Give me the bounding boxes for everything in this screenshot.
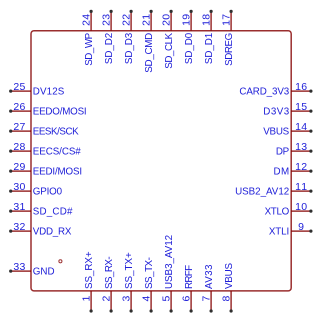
- svg-text:XTLO: XTLO: [265, 206, 290, 217]
- pin end dot: [110, 10, 113, 13]
- svg-text:VBUS: VBUS: [263, 126, 289, 137]
- svg-text:SD_D3: SD_D3: [124, 32, 135, 64]
- wire: [90, 291, 92, 311]
- pin 24 SD_WP (top): [81, 10, 95, 66]
- svg-text:17: 17: [221, 14, 233, 26]
- pin 21 SD_CMD (top): [141, 10, 155, 73]
- pin end dot: [9, 90, 12, 93]
- svg-text:SDREG: SDREG: [224, 33, 235, 66]
- pin 6 RRFF (bottom): [181, 265, 195, 313]
- wire: [11, 110, 31, 112]
- wire: [130, 291, 132, 311]
- pin 17 SDREG (top): [221, 10, 235, 66]
- svg-text:26: 26: [13, 101, 25, 113]
- pin 1 SS_RX+ (bottom): [81, 251, 95, 312]
- pin 14 VBUS (right): [263, 121, 312, 138]
- svg-text:XTLI: XTLI: [269, 226, 289, 237]
- svg-text:EEDI/MOSI: EEDI/MOSI: [33, 166, 82, 177]
- pin 8 VBUS (bottom): [221, 263, 235, 313]
- pin end dot: [150, 309, 153, 312]
- wire: [11, 210, 31, 212]
- svg-text:GPIO0: GPIO0: [33, 186, 63, 197]
- pin 22 SD_D3 (top): [121, 10, 135, 64]
- pin 31 SD_CD# (left): [9, 201, 73, 218]
- svg-text:4: 4: [141, 296, 153, 302]
- svg-text:28: 28: [13, 141, 25, 153]
- svg-text:1: 1: [81, 296, 93, 302]
- pin end dot: [230, 309, 233, 312]
- svg-text:USB2_AV12: USB2_AV12: [235, 186, 289, 197]
- svg-text:SS_RX+: SS_RX+: [84, 251, 95, 289]
- pin end dot: [9, 230, 12, 233]
- pin end dot: [150, 10, 153, 13]
- svg-text:SD_CMD: SD_CMD: [144, 33, 155, 73]
- pin end dot: [90, 309, 93, 312]
- svg-text:23: 23: [101, 14, 113, 26]
- pin end dot: [309, 110, 312, 113]
- pin 7 AV33 (bottom): [201, 264, 215, 313]
- pin 4 SS_TX- (bottom): [141, 257, 155, 313]
- svg-text:12: 12: [295, 161, 307, 173]
- svg-text:EESK/SCK: EESK/SCK: [33, 126, 79, 137]
- pin end dot: [9, 150, 12, 153]
- pin 30 GPIO0 (left): [9, 181, 62, 198]
- svg-text:SS_RX-: SS_RX-: [104, 256, 115, 289]
- svg-text:5: 5: [161, 296, 173, 302]
- pin end dot: [9, 270, 12, 273]
- svg-text:EECS/CS#: EECS/CS#: [33, 146, 82, 157]
- pin 18 SD_D1 (top): [201, 10, 215, 64]
- wire: [291, 170, 311, 172]
- pin 27 EESK/SCK (left): [9, 121, 79, 138]
- pin 16 CARD_3V3 (right): [239, 81, 312, 98]
- wire: [11, 150, 31, 152]
- svg-text:21: 21: [141, 14, 153, 26]
- wire: [110, 291, 112, 311]
- wire: [170, 11, 172, 30]
- svg-text:3: 3: [121, 296, 133, 302]
- pin 19 SD_D0 (top): [181, 10, 195, 64]
- wire: [291, 190, 311, 192]
- pin end dot: [190, 10, 193, 13]
- pin end dot: [309, 230, 312, 233]
- pin end dot: [90, 10, 93, 13]
- svg-text:CARD_3V3: CARD_3V3: [239, 86, 289, 97]
- logic indicator circle near GND: [59, 260, 62, 263]
- wire: [11, 230, 31, 232]
- pin end dot: [190, 309, 193, 312]
- pin 20 SD_CLK (top): [161, 10, 175, 69]
- wire: [291, 150, 311, 152]
- svg-text:25: 25: [13, 81, 25, 93]
- wire: [291, 110, 311, 112]
- svg-text:VDD_RX: VDD_RX: [33, 226, 72, 237]
- pin end dot: [309, 190, 312, 193]
- wire: [130, 11, 132, 30]
- pin end dot: [309, 90, 312, 93]
- wire: [230, 291, 232, 311]
- wire: [11, 130, 31, 132]
- pin end dot: [230, 10, 233, 13]
- wire: [190, 291, 192, 311]
- svg-text:DM: DM: [274, 166, 290, 177]
- svg-text:15: 15: [295, 101, 307, 113]
- svg-text:8: 8: [221, 296, 233, 302]
- svg-text:24: 24: [81, 14, 93, 26]
- wire: [11, 270, 31, 272]
- pin 2 SS_RX- (bottom): [101, 256, 115, 312]
- pin end dot: [309, 170, 312, 173]
- pin 25 DV12S (left): [9, 81, 65, 98]
- pin end dot: [210, 10, 213, 13]
- svg-text:SD_D0: SD_D0: [184, 32, 195, 64]
- wire: [291, 230, 311, 232]
- wire: [11, 170, 31, 172]
- wire: [150, 11, 152, 30]
- IC body: [31, 31, 291, 291]
- wire: [11, 90, 31, 92]
- svg-text:USB3_AV12: USB3_AV12: [164, 235, 175, 289]
- svg-text:27: 27: [13, 121, 25, 133]
- pin 5 USB3_AV12 (bottom): [161, 235, 175, 313]
- pin end dot: [309, 130, 312, 133]
- svg-text:2: 2: [101, 296, 113, 302]
- pin end dot: [110, 309, 113, 312]
- wire: [291, 90, 311, 92]
- wire: [210, 11, 212, 30]
- pin 26 EEDO/MOSI (left): [9, 101, 87, 118]
- svg-text:10: 10: [295, 201, 307, 213]
- svg-text:29: 29: [13, 161, 25, 173]
- pin 32 VDD_RX (left): [9, 221, 72, 238]
- wire: [210, 291, 212, 311]
- pin 29 EEDI/MOSI (left): [9, 161, 82, 178]
- svg-text:AV33: AV33: [204, 264, 215, 289]
- pin 33 GND (left): [9, 261, 54, 278]
- svg-text:9: 9: [298, 221, 304, 233]
- pin end dot: [9, 210, 12, 213]
- svg-text:18: 18: [201, 14, 213, 26]
- svg-text:11: 11: [295, 181, 307, 193]
- svg-text:14: 14: [295, 121, 307, 133]
- pin end dot: [170, 309, 173, 312]
- svg-text:SS_TX-: SS_TX-: [144, 257, 155, 289]
- wire: [170, 291, 172, 311]
- pin 10 XTLO (right): [265, 201, 313, 218]
- svg-text:EEDO/MOSI: EEDO/MOSI: [33, 106, 87, 117]
- pin end dot: [210, 309, 213, 312]
- svg-text:SD_D2: SD_D2: [104, 33, 115, 64]
- svg-text:19: 19: [181, 14, 193, 26]
- pin 11 USB2_AV12 (right): [235, 181, 312, 198]
- svg-text:6: 6: [181, 296, 193, 302]
- wire: [110, 11, 112, 30]
- svg-text:13: 13: [295, 141, 307, 153]
- svg-text:DP: DP: [276, 146, 290, 157]
- svg-text:DV12S: DV12S: [33, 86, 65, 97]
- pin 13 DP (right): [276, 141, 313, 158]
- wire: [190, 11, 192, 30]
- svg-text:GND: GND: [33, 266, 55, 277]
- pin end dot: [309, 150, 312, 153]
- pin end dot: [9, 130, 12, 133]
- pin 9 XTLI (right): [269, 221, 313, 238]
- pin 12 DM (right): [274, 161, 313, 178]
- svg-text:SD_D1: SD_D1: [204, 33, 215, 64]
- wire: [150, 291, 152, 311]
- pin 23 SD_D2 (top): [101, 10, 115, 64]
- pin end dot: [130, 10, 133, 13]
- wire: [90, 11, 92, 30]
- wire: [291, 210, 311, 212]
- pin end dot: [9, 170, 12, 173]
- pin 3 SS_TX+ (bottom): [121, 252, 135, 313]
- wire: [230, 11, 232, 30]
- pin 28 EECS/CS# (left): [9, 141, 81, 158]
- svg-text:SD_CLK: SD_CLK: [164, 32, 175, 68]
- svg-text:RRFF: RRFF: [184, 265, 195, 289]
- pin 15 D3V3 (right): [263, 101, 312, 118]
- svg-text:31: 31: [13, 201, 25, 213]
- pin end dot: [9, 110, 12, 113]
- svg-text:SS_TX+: SS_TX+: [124, 252, 135, 289]
- pin end dot: [9, 190, 12, 193]
- svg-text:16: 16: [295, 81, 307, 93]
- svg-text:D3V3: D3V3: [263, 106, 289, 117]
- pin end dot: [130, 309, 133, 312]
- wire: [291, 130, 311, 132]
- svg-text:SD_WP: SD_WP: [84, 32, 95, 65]
- svg-text:32: 32: [13, 221, 25, 233]
- svg-text:20: 20: [161, 14, 173, 26]
- pin end dot: [309, 210, 312, 213]
- pin end dot: [170, 10, 173, 13]
- svg-text:33: 33: [13, 261, 25, 273]
- svg-text:30: 30: [13, 181, 25, 193]
- wire: [11, 190, 31, 192]
- svg-text:22: 22: [121, 14, 133, 26]
- svg-text:SD_CD#: SD_CD#: [33, 206, 73, 217]
- svg-text:VBUS: VBUS: [224, 263, 235, 289]
- svg-text:7: 7: [201, 296, 213, 302]
